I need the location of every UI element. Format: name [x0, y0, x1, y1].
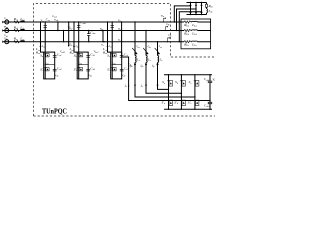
- switch Sa lower: [167, 99, 169, 101]
- resistor Rdc: [206, 3, 208, 5]
- wire phase a bus: [3, 21, 211, 23]
- transistor Sb upper: [78, 53, 80, 55]
- bridge leg x=190.5: [190, 3, 192, 15]
- shunt branch b: [145, 30, 146, 31]
- voltage hook at x=167.4: [167, 37, 170, 41]
- arrow ise2: [73, 45, 75, 47]
- bridge leg x=196: [195, 3, 197, 15]
- switch Sb lower: [180, 99, 182, 101]
- switch arrow a: [132, 48, 137, 54]
- resistor RLc: [184, 41, 191, 43]
- capacitor Cdc1: [208, 81, 212, 82]
- switch Sc upper: [194, 80, 196, 82]
- transistor Sa upper: [44, 53, 46, 55]
- svg-text:RLb: RLb: [183, 31, 189, 36]
- svg-text:vbc1: vbc1: [94, 49, 99, 54]
- inductor Lca: [135, 56, 136, 63]
- svg-text:Rsa: Rsa: [13, 17, 19, 22]
- tick source terminal c: [2, 41, 4, 43]
- svg-text:RLc: RLc: [183, 43, 189, 48]
- svg-text:vab1: vab1: [60, 49, 65, 54]
- capacitor Cse2: [77, 26, 80, 28]
- switch Sc lower: [194, 99, 196, 101]
- switch arrow b: [143, 48, 148, 54]
- inductor LLb: [192, 29, 198, 32]
- tick source terminal a: [2, 21, 4, 23]
- svg-text:vinj: vinj: [78, 61, 82, 66]
- voltage hook at x=163.4: [163, 18, 166, 22]
- wire vbc tap: [63, 31, 65, 42]
- converter leg a: [168, 75, 170, 109]
- svg-text:S′c2: S′c2: [107, 68, 113, 73]
- inductor Ldc: [206, 7, 208, 9]
- bridge input riser: [179, 12, 201, 42]
- resistor Rsb: [14, 29, 19, 31]
- svg-text:vinj: vinj: [45, 61, 49, 66]
- svg-text:Vdc: Vdc: [212, 78, 215, 83]
- arrow ise3: [107, 45, 109, 47]
- switch Sb upper: [180, 80, 182, 82]
- svg-text:Cdc1: Cdc1: [204, 77, 210, 82]
- svg-text:Sa1: Sa1: [40, 53, 44, 58]
- inductor Lsc: [20, 40, 25, 42]
- svg-text:vinj: vinj: [112, 61, 116, 66]
- capacitor Csbc: [88, 31, 90, 42]
- shunt branch a: [134, 21, 135, 22]
- wire switch-leg b: [78, 22, 80, 52]
- converter leg c: [194, 75, 196, 109]
- arrow ise1: [40, 45, 42, 47]
- capacitor Cse3: [111, 26, 114, 28]
- capacitor Cse1: [44, 26, 47, 28]
- svg-text:Sb1: Sb1: [74, 53, 78, 58]
- capacitor Ca2: [53, 69, 57, 71]
- inductor Lsb: [20, 29, 25, 31]
- inductor Lcb: [146, 56, 147, 63]
- voltage hook at x=165.4: [165, 26, 168, 30]
- svg-text:Lsa: Lsa: [19, 17, 25, 22]
- resistor Rsa: [14, 21, 19, 23]
- capacitor Cdc2: [208, 102, 212, 103]
- resistor Rsc: [14, 41, 19, 43]
- svg-text:Cc1: Cc1: [124, 53, 128, 58]
- svg-text:Lsb: Lsb: [19, 25, 25, 30]
- arrow ifa: [134, 64, 136, 67]
- svg-text:Cdc2: Cdc2: [204, 104, 210, 109]
- capacitor Cb1: [86, 56, 90, 58]
- source Vsb: [5, 29, 9, 33]
- svg-text:LLc: LLc: [191, 43, 197, 48]
- converter dc rails: [164, 74, 212, 76]
- bridge leg x=201.5: [201, 3, 203, 15]
- converter leg b: [180, 75, 182, 109]
- wire phase c bus: [3, 41, 211, 43]
- capacitor Cc1: [120, 56, 124, 58]
- inductor LLa: [192, 20, 198, 23]
- source Vsa: [5, 20, 9, 24]
- svg-text:Sc1: Sc1: [107, 53, 111, 58]
- inductor Lsa: [20, 21, 25, 23]
- dashed boundary box TUnPQC: [34, 4, 216, 117]
- wire feed c: [108, 22, 111, 52]
- shunt branch c: [157, 41, 158, 42]
- wire switch-leg a: [44, 22, 46, 52]
- wire tap bc2: [102, 31, 104, 42]
- neutral wire to dc midpoint: [122, 22, 210, 101]
- svg-text:S′b2: S′b2: [74, 68, 80, 73]
- svg-text:LLb: LLb: [191, 31, 197, 36]
- bridge rails: [187, 2, 207, 4]
- arrow ifc: [156, 64, 158, 67]
- arrow ifb: [145, 64, 147, 67]
- inductor LLc: [192, 40, 198, 43]
- svg-text:S′a2: S′a2: [40, 68, 46, 73]
- transistor Sc lower: [111, 67, 113, 69]
- wire ila measurement: [68, 22, 70, 47]
- wire phase b bus: [3, 30, 211, 32]
- tick source terminal b: [2, 29, 4, 31]
- capacitor Cb2: [86, 69, 90, 71]
- wire feed a: [41, 22, 44, 52]
- switch arrow c: [155, 48, 160, 54]
- inductor Lcc: [158, 56, 159, 63]
- capacitor Cc2: [120, 69, 124, 71]
- wire feed b: [74, 22, 77, 52]
- load group outline box: [181, 19, 211, 49]
- resistor RLa: [184, 21, 191, 23]
- wire switch-leg c: [111, 22, 113, 52]
- source Vsc: [5, 40, 9, 44]
- resistor RLb: [184, 29, 191, 31]
- transistor Sa lower: [44, 67, 46, 69]
- dc link column: [209, 75, 211, 109]
- H-bridge cell 1: [44, 52, 55, 79]
- H-bridge cell 3: [111, 52, 122, 79]
- bridge input riser: [174, 6, 190, 22]
- transistor Sb lower: [78, 67, 80, 69]
- bridge input riser: [177, 9, 197, 31]
- svg-text:Rsb: Rsb: [13, 25, 19, 30]
- switch Sa upper: [167, 80, 169, 82]
- svg-text:TUnPQC: TUnPQC: [42, 107, 67, 115]
- wire vab tap: [57, 22, 59, 31]
- svg-text:Csab: Csab: [80, 21, 86, 26]
- arrow in lower: [128, 86, 130, 88]
- svg-text:RLa: RLa: [183, 23, 189, 28]
- transistor Sc upper: [111, 53, 113, 55]
- svg-text:LLa: LLa: [191, 23, 197, 28]
- H-bridge cell 2: [77, 52, 88, 79]
- arrow in upper: [128, 64, 130, 66]
- capacitor Ca1: [53, 56, 57, 58]
